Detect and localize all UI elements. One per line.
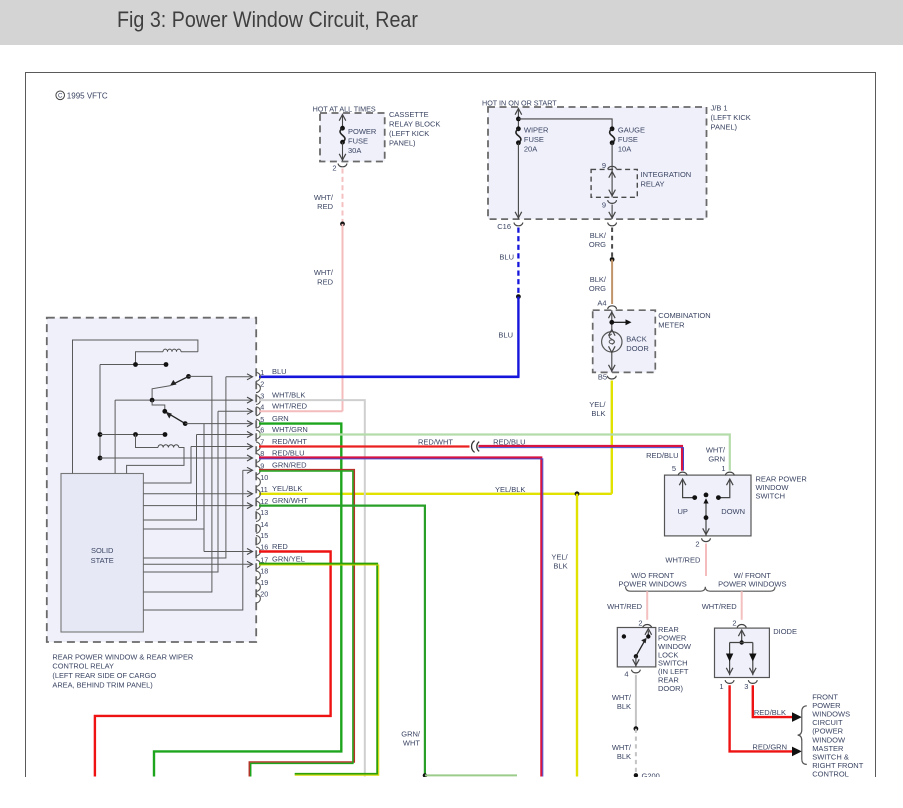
svg-text:5: 5 [672,464,676,473]
wire pin 12 internal [143,505,251,507]
svg-text:RED/BLU: RED/BLU [493,437,526,446]
wire GRN from pin 5 [154,424,341,777]
wire pin 8 internal [100,457,252,459]
svg-text:METER: METER [658,321,685,330]
wire BLK/ORG dashed [611,228,613,260]
svg-text:COMBINATION: COMBINATION [658,311,710,320]
brace for front circuit note [798,706,807,765]
svg-text:W/O FRONT: W/O FRONT [631,571,674,580]
svg-text:SOLID: SOLID [91,546,114,555]
svg-text:RED: RED [317,277,333,286]
relay pin 6 [256,430,260,439]
wire WHT/BLK from pin 3 [259,400,365,776]
wire inside J/B1: feed to wiper fuse [517,109,519,129]
diode symbol left [726,654,733,662]
switch interior up contact (UP) [683,479,695,498]
svg-text:C16: C16 [497,222,511,231]
wire BLU horizontal to relay pin 1 [259,375,520,378]
lamp BACK DOOR [602,332,622,352]
wire wiper fuse to C16 [517,143,519,219]
svg-text:4: 4 [260,403,264,412]
svg-text:6: 6 [260,426,264,435]
svg-text:RELAY BLOCK: RELAY BLOCK [389,120,440,129]
svg-text:WHT/: WHT/ [706,445,726,454]
ground G200 [634,773,638,777]
svg-text:14: 14 [260,520,268,529]
relay pin 2 [256,384,260,393]
wire pin 4 internal [218,410,252,412]
svg-text:BLU: BLU [272,367,287,376]
svg-text:2: 2 [260,379,264,388]
svg-text:WHT/RED: WHT/RED [272,402,308,411]
svg-text:REAR POWER WINDOW & REAR WIPER: REAR POWER WINDOW & REAR WIPER [52,652,193,661]
connector (( inline [472,441,475,453]
svg-text:AREA, BEHIND TRIM PANEL): AREA, BEHIND TRIM PANEL) [52,680,152,689]
wire RED/BLU from pin 8 [259,457,541,776]
svg-text:GRN: GRN [272,414,289,423]
junction dot GRN/WHT [423,773,427,777]
svg-text:2: 2 [695,539,699,548]
svg-text:RED: RED [317,202,333,211]
svg-text:11: 11 [260,485,267,494]
svg-text:ORG: ORG [589,284,606,293]
svg-text:9: 9 [602,201,606,210]
svg-text:WIPER: WIPER [524,125,549,134]
svg-text:A4: A4 [597,298,606,307]
wire WHT/BLK dashed to ground [635,729,637,775]
svg-text:(LEFT REAR SIDE OF CARGO: (LEFT REAR SIDE OF CARGO [52,671,156,680]
pin 4 of lock switch [632,670,641,673]
svg-text:WHT/RED: WHT/RED [702,602,738,611]
wire RED/BLU to switch pin 5 [479,446,683,471]
svg-text:W/ FRONT: W/ FRONT [734,571,771,580]
svg-text:GRN/RED: GRN/RED [272,461,307,470]
wire pale green continuation [425,774,517,776]
svg-text:B5: B5 [598,373,607,382]
relay pin 20 [256,594,260,603]
coil L1 [163,349,181,352]
svg-text:RED: RED [272,542,288,551]
svg-text:BLK: BLK [591,409,605,418]
svg-text:(LEFT KICK: (LEFT KICK [711,113,751,122]
svg-text:PANEL): PANEL) [711,122,738,131]
svg-text:SWITCH: SWITCH [756,492,786,501]
svg-text:WHT/: WHT/ [314,193,334,202]
wire YEL/BLK vertical to bottom [576,494,578,777]
svg-text:WHT/: WHT/ [314,268,334,277]
solid state module box [61,474,143,633]
switch contact K1 (upper) [186,374,191,379]
coil L2 with leads [136,435,159,448]
relay pin 11 [256,489,260,498]
wire WHT/RED dashed (fuse to junction) [342,169,344,224]
svg-text:3: 3 [260,391,264,400]
svg-text:GRN/YEL: GRN/YEL [272,555,305,564]
svg-text:BLK/: BLK/ [590,275,607,284]
combination meter box [593,310,656,372]
relay pin 5 [256,419,260,428]
svg-text:DOOR): DOOR) [658,684,684,693]
relay pin 15 [256,536,260,545]
relay pin 3 [256,396,260,405]
svg-text:PANEL): PANEL) [389,139,416,148]
svg-text:STATE: STATE [91,556,114,565]
wire inside meter [611,310,613,331]
svg-text:1: 1 [260,368,264,377]
fuse F power fuse 30A [342,115,344,129]
svg-text:BLK/: BLK/ [590,231,607,240]
cassette relay block box [320,113,385,162]
switch common contact [704,493,709,498]
wire pivot K1 to internal bus [143,376,212,592]
svg-text:WHT/: WHT/ [612,693,632,702]
svg-text:18: 18 [260,567,268,576]
switch contact K2 (lower) [152,400,165,411]
svg-text:RED/BLU: RED/BLU [646,451,679,460]
wire coil L1 left lead [136,352,164,365]
wire WHT/BLK from lock switch pin 4 [635,675,637,729]
svg-text:2: 2 [332,164,336,173]
svg-text:1: 1 [721,464,725,473]
wire pin 9 internal [243,469,252,471]
svg-text:INTEGRATION: INTEGRATION [641,170,692,179]
svg-text:BLK: BLK [617,702,631,711]
diode D1 box [715,628,770,677]
wire WHT/RED left branch [646,591,648,620]
svg-text:POWER WINDOWS: POWER WINDOWS [718,580,786,589]
fuse wiper fuse 20A [516,126,521,131]
svg-text:WHT/: WHT/ [612,743,632,752]
svg-text:BLU: BLU [498,330,513,339]
svg-text:GRN: GRN [708,454,725,463]
wire RED from pin 16 [95,552,331,777]
svg-text:BLK: BLK [553,562,567,571]
svg-text:13: 13 [260,508,268,517]
svg-text:FUSE: FUSE [618,135,638,144]
relay pin 8 [256,454,260,463]
svg-text:POWER WINDOWS: POWER WINDOWS [618,580,686,589]
wire RED (to RED/GRN) [730,685,793,751]
wire BLK/ORG solid (tan) [611,260,613,305]
svg-text:DOOR: DOOR [626,344,649,353]
branch brace line [626,587,776,591]
relay pin 12 [256,501,260,510]
svg-text:3: 3 [744,682,748,691]
svg-text:RED/WHT: RED/WHT [272,437,307,446]
pin 9 integration relay bottom [608,200,617,203]
wire YEL/BLK vertical from B5 [611,381,613,494]
svg-text:20: 20 [260,590,268,599]
switch S2 rear power window lock switch box [617,628,656,667]
svg-text:HOT AT ALL TIMES: HOT AT ALL TIMES [313,104,376,113]
wire GRN/RED from pin 9 [249,470,354,777]
wire pin 5 internal [185,423,251,425]
wire left bus vertical [99,365,101,459]
relay pin 7 [256,442,260,451]
svg-text:YEL/: YEL/ [589,400,606,409]
wire GRN/WHT from pin 12 [259,506,425,776]
svg-text:BLU: BLU [499,252,514,261]
relay pin 14 [256,524,260,533]
svg-text:RED/GRN: RED/GRN [752,743,787,752]
svg-text:20A: 20A [524,144,537,153]
svg-text:RELAY: RELAY [641,180,665,189]
wire lamp to B5 [611,352,613,372]
wire relay interior: top feed with coil [73,340,198,474]
wire pin 16 internal [204,551,252,553]
wire WHT/RED solid down to relay pin 4 [342,224,344,411]
svg-text:BACK: BACK [626,335,646,344]
pin 9 integration relay top [608,166,617,169]
wire to J/B1 bottom edge [611,205,613,220]
copyright notice [56,91,65,100]
relay pin 18 [256,571,260,580]
svg-text:4: 4 [624,670,628,679]
svg-text:ORG: ORG [589,240,606,249]
wire pin 6 internal [197,434,252,436]
relay pin 1 [256,372,260,381]
svg-text:RED/WHT: RED/WHT [418,437,453,446]
relay pin 16 [256,547,260,556]
wire through integration relay [611,169,613,197]
svg-text:DIODE: DIODE [773,627,797,636]
junction dot on YEL/BLK [575,491,580,496]
svg-text:C: C [58,93,63,100]
wire pin 11 internal [143,493,251,495]
pin C16 [514,223,523,226]
svg-text:30A: 30A [348,146,361,155]
junction dot on BLU [516,294,521,299]
arrow to front circuit (RED/GRN) [792,747,802,757]
branch arrow right inside meter [612,321,626,323]
arrow to front circuit (RED/BLK) [792,712,802,722]
svg-text:12: 12 [260,497,268,506]
svg-text:1995 VFTC: 1995 VFTC [67,91,108,100]
wire branch to gauge fuse [518,119,612,129]
wire WHT/RED right branch [741,591,743,620]
relay pin 9 [256,466,260,475]
J/B1 bottom connector for BLK/ORG [608,223,617,226]
wire YEL/BLK horizontal to relay pin 11 [259,493,612,495]
svg-text:FUSE: FUSE [348,137,368,146]
title bar [0,0,903,45]
wire node row 2 [100,434,165,436]
svg-text:CONTROL: CONTROL [812,769,849,778]
integration relay box [591,169,637,197]
svg-text:WHT: WHT [403,739,420,748]
svg-text:J/B 1: J/B 1 [711,104,728,113]
wire WHT/GRN from pin 6 to switch pin 1 [259,435,730,471]
svg-text:HOT IN ON OR START: HOT IN ON OR START [482,98,557,107]
relay pin 10 [256,478,260,487]
wire RED/WHT from pin 7 [259,445,470,447]
svg-text:10: 10 [260,473,268,482]
relay pin 19 [256,583,260,592]
svg-text:WHT/RED: WHT/RED [665,556,701,565]
wire pin 17 internal [143,563,251,565]
wire pin 1 internal [226,376,252,378]
pin 3 of diode [748,680,757,683]
svg-text:WHT/GRN: WHT/GRN [272,425,308,434]
wire pin 7 internal [191,446,252,448]
pin 2 of cassette relay block [338,164,347,167]
svg-text:2: 2 [732,618,736,627]
svg-text:GAUGE: GAUGE [618,125,645,134]
svg-text:WHT/RED: WHT/RED [607,602,643,611]
svg-text:GRN/WHT: GRN/WHT [272,496,308,505]
relay pin 17 [256,560,260,569]
wire node row 1 [100,364,166,366]
svg-text:(LEFT KICK: (LEFT KICK [389,129,429,138]
pin 1 of diode [725,680,734,683]
svg-text:YEL/BLK: YEL/BLK [272,484,302,493]
svg-text:1: 1 [719,682,723,691]
pin 2 of switch [702,538,711,541]
wire pin 3 internal [115,399,251,401]
svg-text:2: 2 [638,618,642,627]
svg-text:RED/BLU: RED/BLU [272,448,305,457]
diode interior [741,631,743,643]
svg-text:FUSE: FUSE [524,135,544,144]
J/B 1 junction block box [488,107,707,219]
svg-text:WHT/BLK: WHT/BLK [272,391,305,400]
wire GRN/YEL from pin 17 [259,564,377,774]
wire WHT/RED stub to pin 4 [259,410,343,412]
svg-text:UP: UP [678,507,688,516]
switch S1 rear power window switch box [665,475,752,536]
relay pin 4 [256,407,260,416]
svg-text:10A: 10A [618,144,631,153]
wire RED (to RED/BLK) [753,685,793,717]
diode symbol right [749,654,756,662]
junction dot [634,726,639,731]
wire WHT/RED from switch pin 2 [705,544,707,577]
svg-text:RED/BLK: RED/BLK [754,708,786,717]
svg-text:BLK: BLK [617,752,631,761]
fuse gauge fuse 10A [610,126,615,131]
svg-text:7: 7 [260,438,264,447]
wire BLU dashed from C16 [517,228,519,297]
switch interior up contact (DOWN) [718,479,729,498]
svg-text:19: 19 [260,578,268,587]
wire BLU solid [517,297,519,377]
svg-text:GRN/: GRN/ [401,730,421,739]
svg-text:G200: G200 [642,771,660,780]
relay box: rear power window and rear wiper control relay [47,318,256,642]
svg-text:9: 9 [602,161,606,170]
lock switch interior [647,631,649,637]
svg-text:CASSETTE: CASSETTE [389,110,429,119]
svg-text:YEL/: YEL/ [551,553,568,562]
svg-text:15: 15 [260,531,268,540]
svg-text:CONTROL RELAY: CONTROL RELAY [52,662,114,671]
wire gauge fuse to integration relay [611,143,613,169]
svg-text:YEL/BLK: YEL/BLK [495,485,525,494]
pin B5 [607,376,616,379]
svg-text:DOWN: DOWN [721,507,745,516]
relay pin 13 [256,513,260,522]
junction dot on BLK/ORG [610,257,615,262]
junction dot on WHT/RED [340,222,345,227]
svg-text:POWER: POWER [348,127,377,136]
